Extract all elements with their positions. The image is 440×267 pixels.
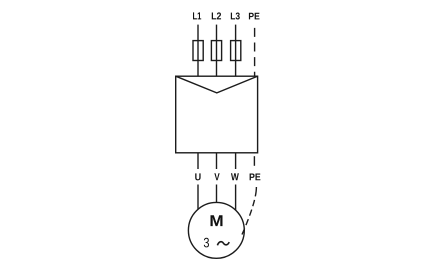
label 3: [204, 238, 209, 248]
label L1: [193, 12, 201, 19]
motor M1: [188, 202, 244, 258]
wire W lower segment: [235, 185, 237, 214]
label U: [195, 173, 200, 180]
wire L3: [235, 25, 237, 77]
label L2: [212, 12, 221, 19]
label L3: [231, 13, 240, 20]
wire L2: [216, 25, 218, 77]
wire U upper segment: [197, 153, 199, 169]
label W: [231, 173, 239, 180]
wire U lower segment: [197, 185, 199, 213]
wire V lower segment: [216, 185, 218, 207]
tilde (3-phase symbol): [217, 242, 229, 246]
chevron inside soft starter: [176, 76, 258, 93]
label PE top: [249, 13, 260, 20]
wire PE curve to motor (dashed): [242, 187, 256, 235]
label V: [214, 173, 219, 180]
wire PE below box (dash): [253, 156, 255, 166]
wire W upper segment: [235, 153, 237, 169]
wire V upper segment: [216, 153, 218, 169]
wire PE top (dashed): [254, 28, 256, 76]
label PE bottom: [250, 174, 261, 181]
fuse F3: [231, 41, 241, 61]
fuse F1: [193, 41, 203, 61]
fuse F2: [211, 41, 221, 61]
soft starter box U1: [176, 76, 258, 153]
wire L1: [197, 25, 199, 77]
label M: [211, 215, 223, 226]
